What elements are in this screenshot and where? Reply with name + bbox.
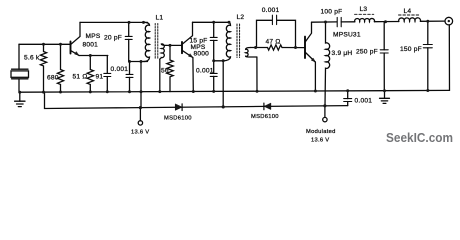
capacitor C2 20pF [125,22,132,61]
wire to Q3 base [282,47,305,49]
core L4 dashed [399,14,421,16]
rail collector segment A [80,21,148,23]
inductor L2 secondary [246,48,257,58]
inductor L2 primary [223,22,230,61]
wire Q1 emitter line [79,55,108,57]
svg-text:L4: L4 [404,8,412,15]
svg-text:51 Ω: 51 Ω [73,74,88,81]
svg-text:13.6 V: 13.6 V [311,137,329,143]
ground rail [20,90,450,92]
svg-text:SeekIC.com: SeekIC.com [386,130,453,145]
wire L2 secondary bottom to ground [256,57,258,91]
svg-text:13.6 V: 13.6 V [131,130,149,136]
resistor R5 47 [268,45,283,50]
capacitor C10 0.001 bypass [344,91,352,106]
svg-text:250 pF: 250 pF [356,48,378,55]
svg-text:100 pF: 100 pF [321,9,343,16]
inductor L1 secondary [160,44,166,59]
transistor Q1 MPS8001 [71,22,81,55]
capacitor C3 0.001 [126,62,133,92]
core L1 [155,24,158,59]
transistor Q2 MPS8000 [182,22,193,57]
svg-text:MPSU31: MPSU31 [333,32,361,39]
crystal Y1 [11,69,29,79]
resistor R4 56 [167,45,173,91]
svg-text:0.001: 0.001 [355,98,373,105]
inductor L4 [399,18,421,22]
wire tap line 1 [129,61,148,63]
svg-text:5.6 k: 5.6 k [24,55,40,62]
transistor Q3 MPSU31 [305,22,315,62]
svg-text:150 pF: 150 pF [400,46,422,53]
wire Q3 emitter to ground [314,62,316,91]
capacitor C6 0.001 [272,15,276,24]
svg-text:MSD6100: MSD6100 [251,114,279,120]
svg-text:0.001: 0.001 [262,7,280,14]
core L2 [237,24,240,58]
node left vertical wire [18,44,20,92]
ground symbol left [15,92,25,106]
capacitor C1 0.001 [104,56,111,92]
wire Q2 base line [166,44,182,46]
wire Q2 emitter to ground [192,58,194,92]
svg-text:47 Ω: 47 Ω [266,39,281,46]
rail collector segment C [312,21,445,22]
diode D2 MSD6100 [264,103,271,110]
svg-text:MPS: MPS [86,33,101,40]
resistor R2 680 [57,44,63,92]
core L3 dashed [355,13,374,15]
svg-text:56: 56 [161,67,169,74]
svg-text:91: 91 [96,74,104,81]
inductor RFC 3.9uH [325,22,330,106]
diode D1 MSD6100 [175,104,182,111]
wire L2 feed to B+ [222,61,224,107]
svg-text:20 pF: 20 pF [104,34,122,41]
capacitor C4 15pF [210,22,217,61]
svg-text:0.001: 0.001 [196,67,214,74]
capacitor C8 250pF [380,22,388,91]
wire signal line to PA base [250,47,267,49]
wire connector ground drop [448,25,450,91]
B+ rail [45,92,348,108]
terminal Modulated 13.6V [323,106,327,122]
wire L1 secondary bottom to ground [159,59,161,91]
svg-text:Modulated: Modulated [306,129,336,135]
wire L1 feed to B+ [140,62,142,108]
resistor R3 91 [87,56,93,92]
capacitor C7 100pF [337,17,341,26]
svg-text:L3: L3 [360,6,368,13]
svg-text:8000: 8000 [194,51,210,58]
capacitor C5 0.001 [210,61,217,92]
terminal 13.6V [138,108,142,126]
svg-text:L2: L2 [237,14,245,21]
svg-text:0.001: 0.001 [111,66,129,73]
inductor L1 primary [144,22,150,61]
wire tap line 2 [214,60,224,62]
connector J1 output [445,17,453,25]
svg-text:3.9 μH: 3.9 μH [332,50,353,57]
resistor R1 5.6k [40,44,46,92]
svg-text:680: 680 [47,74,59,81]
capacitor C9 150pF [423,21,432,90]
svg-text:MSD6100: MSD6100 [164,115,192,121]
rail collector segment B [193,21,230,23]
svg-text:L1: L1 [156,15,164,22]
wire 0.001 loop [257,20,296,47]
inductor L3 [355,18,375,21]
ground symbol right [380,91,390,104]
base rail [19,43,71,45]
svg-text:8001: 8001 [83,42,99,49]
